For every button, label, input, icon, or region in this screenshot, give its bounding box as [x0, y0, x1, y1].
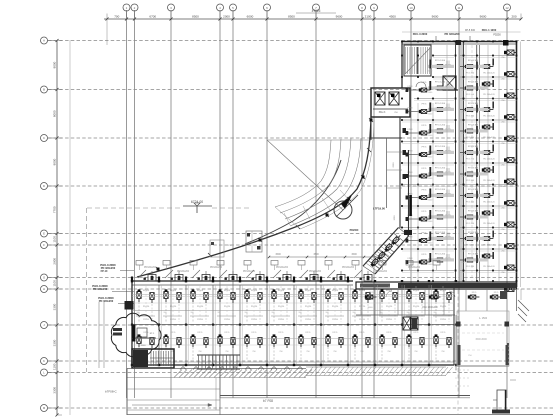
svg-text:FP-5: FP-5 [279, 332, 285, 334]
svg-text:1200: 1200 [394, 215, 396, 221]
svg-text:8500: 8500 [192, 15, 199, 19]
svg-text:K: K [43, 359, 45, 363]
svg-text:PD 200x120: PD 200x120 [483, 94, 495, 96]
svg-text:6724.00: 6724.00 [191, 200, 203, 204]
svg-text:PD120: PD120 [305, 306, 312, 308]
svg-text:PAU-3: PAU-3 [379, 111, 386, 114]
svg-text:300: 300 [406, 312, 409, 314]
svg-text:FP-63: FP-63 [440, 290, 447, 292]
svg-text:FP-5: FP-5 [422, 82, 428, 84]
svg-text:300: 300 [325, 312, 328, 314]
svg-text:PD 200x120: PD 200x120 [483, 266, 495, 268]
svg-text:FP-5 300: FP-5 300 [466, 159, 475, 161]
svg-text:FP-63: FP-63 [359, 290, 366, 292]
svg-text:PD200: PD200 [359, 319, 366, 321]
svg-text:FP-63: FP-63 [143, 290, 150, 292]
svg-text:1500: 1500 [313, 253, 319, 256]
svg-text:FP-5: FP-5 [422, 147, 428, 149]
svg-text:PD320x200: PD320x200 [144, 267, 157, 269]
svg-text:9600: 9600 [432, 15, 439, 19]
svg-text:PD320x200: PD320x200 [309, 271, 322, 273]
svg-text:FP-63: FP-63 [413, 290, 420, 292]
svg-text:FP-5: FP-5 [422, 190, 428, 192]
svg-text:PD 200x120: PD 200x120 [483, 223, 495, 225]
svg-text:FP-5: FP-5 [422, 125, 428, 127]
svg-text:FP-5 1200: FP-5 1200 [435, 254, 446, 256]
svg-text:PD120: PD120 [143, 306, 150, 308]
svg-text:PD 200x120: PD 200x120 [483, 116, 495, 118]
svg-text:FP-5 300: FP-5 300 [466, 245, 475, 247]
svg-text:12: 12 [505, 6, 509, 10]
svg-text:PD: PD [228, 245, 231, 247]
svg-text:FP-5 300: FP-5 300 [466, 223, 475, 225]
svg-text:FP-5 300: FP-5 300 [466, 73, 475, 75]
svg-text:1500: 1500 [351, 253, 357, 256]
svg-text:6000: 6000 [247, 15, 254, 19]
svg-text:PD200: PD200 [170, 319, 177, 321]
svg-text:FP-5: FP-5 [333, 332, 339, 334]
svg-text:PD250: PD250 [493, 34, 501, 37]
svg-text:11: 11 [457, 6, 460, 10]
svg-text:E: E [43, 232, 45, 236]
svg-text:8000: 8000 [53, 61, 57, 68]
svg-text:300: 300 [217, 312, 220, 314]
svg-text:FP-5 1200: FP-5 1200 [435, 146, 446, 148]
svg-text:3300: 3300 [53, 387, 57, 394]
svg-text:PD120: PD120 [278, 306, 285, 308]
svg-text:8000: 8000 [53, 158, 57, 165]
svg-text:B: B [43, 88, 45, 92]
svg-text:3300: 3300 [53, 303, 57, 310]
svg-text:PD2000: PD2000 [350, 229, 359, 232]
svg-text:1100: 1100 [53, 236, 57, 243]
svg-text:H: H [43, 287, 45, 291]
svg-text:PD120: PD120 [332, 306, 339, 308]
svg-text:PD320x200: PD320x200 [243, 271, 256, 273]
svg-text:300: 300 [298, 312, 301, 314]
svg-text:FP-63: FP-63 [224, 290, 231, 292]
svg-text:PD320x200: PD320x200 [210, 267, 223, 269]
svg-text:FP-5: FP-5 [387, 332, 393, 334]
svg-text:PD320x200: PD320x200 [276, 267, 289, 269]
svg-text:PD200: PD200 [224, 319, 231, 321]
svg-text:300: 300 [244, 312, 247, 314]
svg-text:FP-5 1200: FP-5 1200 [435, 125, 446, 127]
svg-text:FP-5 1200: FP-5 1200 [435, 232, 446, 234]
svg-text:PD 320x200: PD 320x200 [445, 32, 460, 36]
svg-text:PD120: PD120 [413, 306, 420, 308]
svg-text:PD200: PD200 [278, 319, 285, 321]
svg-text:9600: 9600 [480, 15, 487, 19]
svg-text:FP-5: FP-5 [422, 168, 428, 170]
svg-text:PD320x200: PD320x200 [342, 267, 355, 269]
svg-text:8500: 8500 [288, 15, 295, 19]
svg-text:700: 700 [114, 15, 119, 19]
svg-text:PD200: PD200 [440, 319, 447, 321]
svg-text:3300: 3300 [53, 339, 57, 346]
svg-text:PD200: PD200 [332, 319, 339, 321]
svg-text:2000: 2000 [393, 162, 395, 168]
svg-text:PD 200x120: PD 200x120 [483, 180, 495, 182]
svg-text:PD 200x120: PD 200x120 [483, 245, 495, 247]
svg-text:PD 200x120: PD 200x120 [483, 137, 495, 139]
svg-text:FP-5: FP-5 [306, 332, 312, 334]
svg-text:1100: 1100 [53, 280, 57, 287]
svg-text:FP-5: FP-5 [441, 332, 447, 334]
svg-text:PD 200x120: PD 200x120 [483, 202, 495, 204]
svg-text:FP-5 1200: FP-5 1200 [435, 60, 446, 62]
svg-text:PD120: PD120 [440, 306, 447, 308]
svg-text:FP-5 300: FP-5 300 [466, 116, 475, 118]
svg-text:2100: 2100 [365, 15, 372, 19]
svg-text:FP-63: FP-63 [278, 290, 285, 292]
svg-text:8000: 8000 [53, 110, 57, 117]
svg-text:FP-5 300: FP-5 300 [465, 29, 476, 32]
svg-text:L7F19.00: L7F19.00 [373, 207, 385, 211]
svg-text:FP-5 1200: FP-5 1200 [435, 82, 446, 84]
svg-text:FP-63: FP-63 [332, 290, 339, 292]
svg-text:PD 320x200: PD 320x200 [93, 287, 108, 291]
svg-text:PD120: PD120 [224, 306, 231, 308]
svg-text:2900: 2900 [53, 258, 57, 265]
svg-text:300: 300 [433, 312, 436, 314]
svg-text:FP-5 300: FP-5 300 [466, 202, 475, 204]
svg-text:PD 320x200: PD 320x200 [99, 299, 114, 303]
svg-text:1- 1500: 1- 1500 [479, 317, 488, 320]
svg-text:FP-5: FP-5 [144, 332, 150, 334]
svg-text:2000: 2000 [223, 15, 230, 19]
svg-text:PD200: PD200 [143, 319, 150, 321]
svg-text:FP-5: FP-5 [414, 332, 420, 334]
svg-text:300: 300 [271, 312, 274, 314]
svg-text:PD320x200: PD320x200 [177, 271, 190, 273]
svg-text:FP-5: FP-5 [171, 332, 177, 334]
svg-text:PD120: PD120 [359, 306, 366, 308]
svg-text:PD120: PD120 [386, 306, 393, 308]
svg-text:FP-5 300: FP-5 300 [466, 94, 475, 96]
svg-text:PAU-3 2000: PAU-3 2000 [413, 32, 428, 36]
svg-text:200: 200 [511, 15, 516, 19]
svg-text:PD 200x120: PD 200x120 [483, 159, 495, 161]
svg-text:7700: 7700 [53, 206, 57, 213]
svg-text:FP-5 1200: FP-5 1200 [435, 103, 446, 105]
svg-text:300: 300 [190, 312, 193, 314]
svg-text:PD200: PD200 [197, 319, 204, 321]
svg-text:FP-5 1200: FP-5 1200 [435, 189, 446, 191]
svg-text:FP-63: FP-63 [170, 290, 177, 292]
svg-text:1500: 1500 [275, 253, 281, 256]
svg-text:FP-5: FP-5 [422, 254, 428, 256]
svg-text:PAU-1 1200: PAU-1 1200 [482, 28, 497, 32]
svg-text:PD320x200: PD320x200 [408, 267, 421, 269]
svg-text:FP-5: FP-5 [422, 211, 428, 213]
svg-text:PD 200x120: PD 200x120 [483, 73, 495, 75]
svg-text:FP-5: FP-5 [252, 332, 258, 334]
svg-text:FP-5: FP-5 [360, 332, 366, 334]
svg-text:300: 300 [163, 312, 166, 314]
svg-text:PD200: PD200 [305, 319, 312, 321]
svg-text:9600: 9600 [336, 15, 343, 19]
svg-text:FP-63: FP-63 [305, 290, 312, 292]
svg-text:FP-5 1200: FP-5 1200 [435, 168, 446, 170]
svg-text:1500 2000: 1500 2000 [475, 338, 487, 341]
svg-text:PD120: PD120 [170, 306, 177, 308]
svg-text:2000: 2000 [368, 307, 374, 309]
svg-text:4500: 4500 [389, 15, 396, 19]
svg-text:PD200: PD200 [386, 319, 393, 321]
svg-text:10: 10 [409, 6, 413, 10]
svg-text:FP-10: FP-10 [101, 270, 108, 273]
svg-text:b7 F08: b7 F08 [263, 399, 273, 403]
svg-text:FP-63: FP-63 [251, 290, 258, 292]
svg-text:b7F08-C: b7F08-C [105, 390, 118, 394]
svg-text:PD120: PD120 [197, 306, 204, 308]
svg-text:300: 300 [352, 312, 355, 314]
svg-text:A: A [43, 39, 45, 43]
svg-text:FP-63: FP-63 [197, 290, 204, 292]
svg-text:FP-5: FP-5 [198, 332, 204, 334]
svg-text:PAU 1500x400: PAU 1500x400 [422, 306, 438, 309]
svg-text:FP-5 1200: FP-5 1200 [435, 211, 446, 213]
svg-text:PD120: PD120 [251, 306, 258, 308]
svg-text:FP-5 300: FP-5 300 [466, 137, 475, 139]
svg-text:FP-5: FP-5 [225, 332, 231, 334]
svg-text:KT-1: KT-1 [150, 333, 155, 335]
svg-text:F: F [43, 243, 45, 247]
svg-text:FP-5: FP-5 [422, 104, 428, 106]
svg-text:1100: 1100 [53, 363, 57, 370]
svg-text:FP-5: FP-5 [422, 233, 428, 235]
svg-text:6700: 6700 [149, 15, 156, 19]
svg-text:FP-5 300: FP-5 300 [466, 180, 475, 182]
svg-text:PD320x200: PD320x200 [375, 271, 388, 273]
svg-text:2000: 2000 [141, 345, 147, 347]
svg-text:FP-5 300: FP-5 300 [466, 266, 475, 268]
svg-text:PD200: PD200 [251, 319, 258, 321]
